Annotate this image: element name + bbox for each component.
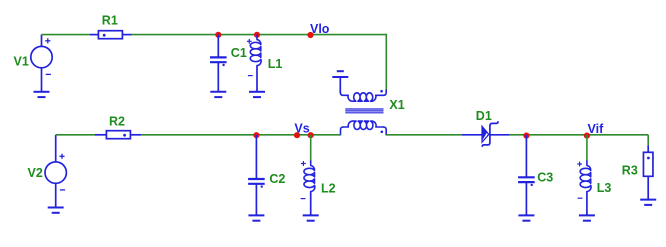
svg-text:V2: V2 bbox=[28, 166, 43, 180]
svg-text:X1: X1 bbox=[389, 98, 404, 112]
svg-text:Vs: Vs bbox=[294, 121, 309, 135]
svg-text:C3: C3 bbox=[537, 171, 553, 185]
svg-text:V1: V1 bbox=[14, 54, 29, 68]
svg-text:L1: L1 bbox=[268, 57, 283, 71]
svg-text:R3: R3 bbox=[622, 163, 638, 177]
svg-text:L2: L2 bbox=[321, 182, 336, 196]
svg-text:R2: R2 bbox=[109, 114, 125, 128]
svg-text:R1: R1 bbox=[102, 14, 118, 28]
svg-text:Vif: Vif bbox=[588, 122, 605, 136]
svg-text:D1: D1 bbox=[476, 109, 492, 123]
svg-text:L3: L3 bbox=[597, 181, 612, 195]
svg-text:Vlo: Vlo bbox=[310, 22, 330, 36]
svg-text:C2: C2 bbox=[269, 172, 285, 186]
svg-text:C1: C1 bbox=[231, 46, 247, 60]
